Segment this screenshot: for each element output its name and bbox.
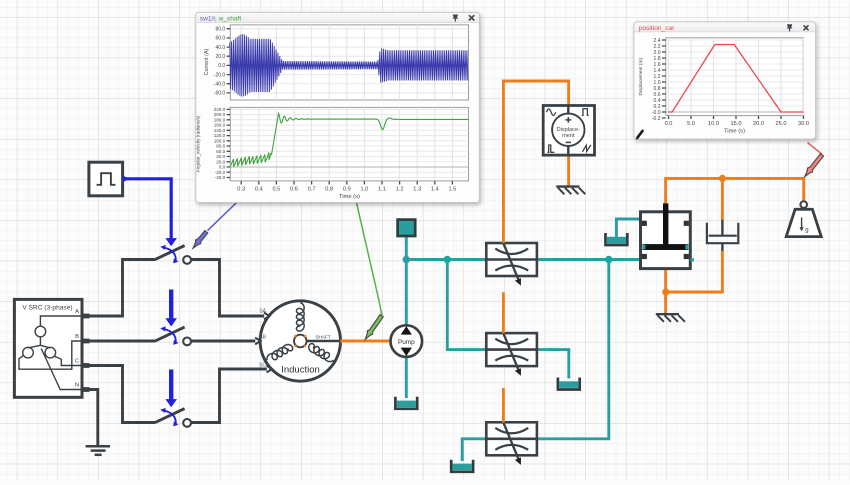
- displacement sensor: [543, 106, 594, 156]
- svg-text:Induction: Induction: [281, 365, 320, 376]
- svg-text:180.0: 180.0: [214, 117, 226, 122]
- svg-text:20.0: 20.0: [753, 121, 764, 127]
- svg-text:-0.2: -0.2: [652, 116, 661, 122]
- junction node (valve V2 branch): [444, 256, 451, 263]
- svg-text:SC: SC: [259, 362, 266, 368]
- svg-text:0.5: 0.5: [273, 187, 281, 193]
- svg-text:SHAFT: SHAFT: [315, 335, 330, 340]
- svg-text:Pump: Pump: [398, 339, 415, 346]
- mechanical line: cylinder body down: [664, 269, 667, 314]
- svg-text:-20.0: -20.0: [215, 170, 226, 175]
- svg-text:140.0: 140.0: [214, 128, 226, 133]
- svg-text:80.0: 80.0: [215, 27, 225, 33]
- rotation arrow at sw2: [160, 326, 178, 345]
- svg-text:C: C: [75, 359, 79, 365]
- svg-text:g: g: [805, 227, 808, 233]
- junction node (pump top): [403, 256, 410, 263]
- svg-text:10.0: 10.0: [708, 121, 719, 127]
- svg-text:1.4: 1.4: [431, 187, 439, 193]
- svg-text:-40.0: -40.0: [214, 82, 226, 88]
- mechanical line: junction to damper: [721, 178, 724, 220]
- mechanical line: cylinder rod to mass: [666, 178, 804, 204]
- svg-text:-40.0: -40.0: [215, 175, 226, 180]
- hydraulic cylinder: [641, 203, 695, 268]
- svg-text:0.8: 0.8: [325, 187, 333, 193]
- control arrow at sw2: [165, 290, 177, 327]
- svg-text:Displacement (m): Displacement (m): [638, 58, 644, 96]
- svg-text:sw1/i; w_shaft: sw1/i; w_shaft: [200, 15, 242, 22]
- valve V1 (variable orifice): [486, 243, 537, 286]
- tank T4 (cylinder drain): [606, 233, 628, 245]
- scope window position_car: [634, 22, 816, 140]
- svg-text:Displace-: Displace-: [557, 127, 580, 133]
- svg-text:V SRC (3-phase): V SRC (3-phase): [22, 305, 72, 312]
- svg-text:60.0: 60.0: [215, 36, 225, 42]
- mechanical line: damper to ground: [666, 251, 722, 292]
- hydraulic line: cylinder node down to valve V3: [537, 260, 609, 439]
- rotation arrow at sw3: [160, 408, 178, 427]
- rotation arrow at sw1: [160, 245, 178, 264]
- svg-text:25.0: 25.0: [776, 121, 787, 127]
- svg-text:0.3: 0.3: [237, 187, 245, 193]
- probe pen (red): [805, 154, 824, 177]
- svg-text:1.1: 1.1: [378, 187, 386, 193]
- mass (load weight): [786, 201, 821, 236]
- hydraulic line: node to valve V2: [447, 260, 486, 350]
- wire phase C: switch sw3 to motor SC: [191, 369, 267, 423]
- scope plot: Angular_velocity (radians/s): [196, 107, 469, 200]
- hydraulic line: tank T4 to cylinder top port: [616, 219, 640, 238]
- svg-text:40.0: 40.0: [215, 45, 225, 51]
- svg-text:80.0: 80.0: [216, 144, 225, 149]
- svg-text:1.3: 1.3: [413, 187, 421, 193]
- shaft: induction machine to pump: [340, 340, 390, 343]
- svg-text:30.0: 30.0: [798, 121, 809, 127]
- tank T3 (valve V3 drain): [451, 460, 473, 472]
- svg-text:-60.0: -60.0: [214, 91, 226, 97]
- damper: [707, 220, 738, 251]
- svg-text:Time (s): Time (s): [339, 194, 360, 200]
- probe pen (green): [365, 315, 383, 340]
- svg-text:40.0: 40.0: [216, 154, 225, 159]
- hydraulic line: pump to tank T1: [405, 357, 408, 398]
- probe line (blue, sw1 current): [208, 203, 237, 231]
- svg-text:N: N: [75, 383, 79, 389]
- svg-text:A: A: [75, 309, 79, 315]
- svg-text:Angular_velocity (radians/s): Angular_velocity (radians/s): [196, 115, 201, 172]
- mechanical ground (cylinder): [656, 314, 685, 322]
- switch sw1 (phase A): [155, 246, 191, 264]
- mechanical ground (sensor): [556, 187, 585, 195]
- control arrow at sw1: [165, 238, 177, 246]
- control arrow at sw3: [165, 370, 177, 408]
- svg-text:0.6: 0.6: [290, 187, 298, 193]
- tank T1 (below pump): [395, 397, 417, 409]
- wire phase C: V SRC C to switch sw3: [88, 366, 155, 423]
- svg-text:Current (A): Current (A): [204, 48, 210, 75]
- junction node (cylinder/damper ground): [662, 288, 669, 295]
- wire: pulse source to sw1 control: [123, 176, 171, 239]
- 3-phase voltage source V SRC: [14, 299, 89, 397]
- svg-text:Time (s): Time (s): [724, 128, 745, 134]
- wire phase B: switch sw2 to motor SB: [191, 340, 255, 343]
- probe pen (blue): [193, 231, 208, 249]
- junction node (damper): [719, 175, 726, 182]
- svg-text:ment: ment: [562, 133, 575, 139]
- svg-text:SA: SA: [259, 308, 266, 314]
- wire phase A: switch sw1 to motor SA: [191, 260, 264, 317]
- edit pencil icon: [637, 130, 643, 138]
- wire phase A: V SRC A to switch sw1: [88, 260, 155, 317]
- svg-text:0.7: 0.7: [308, 187, 316, 193]
- accumulator (teal square): [398, 220, 416, 236]
- svg-text:position_car: position_car: [639, 25, 675, 32]
- switch sw2 (phase B): [155, 327, 191, 345]
- hydraulic line: valve V1 to cylinder: [537, 258, 641, 261]
- svg-text:0.0: 0.0: [218, 63, 225, 69]
- svg-text:0.9: 0.9: [343, 187, 351, 193]
- valve V3 (variable orifice): [486, 422, 537, 465]
- tank T2 (valve V2 drain): [558, 378, 580, 390]
- control stub: valve V2: [502, 292, 505, 333]
- svg-text:0.4: 0.4: [255, 187, 263, 193]
- svg-text:1.2: 1.2: [396, 187, 404, 193]
- pump: [391, 325, 423, 357]
- hydraulic line: valve V3 to tank T3: [462, 439, 486, 461]
- svg-text:5.0: 5.0: [687, 121, 695, 127]
- wire phase B: V SRC B to switch sw2: [88, 340, 155, 343]
- svg-text:20.0: 20.0: [215, 54, 225, 60]
- svg-text:1.0: 1.0: [361, 187, 369, 193]
- junction node (cylinder branch): [605, 256, 612, 263]
- pulse source block: [89, 162, 123, 196]
- svg-text:B: B: [75, 334, 79, 340]
- sensor ground wire: [567, 155, 570, 186]
- hydraulic line: accumulator to pump: [405, 236, 408, 325]
- switch sw3 (phase C): [155, 409, 191, 427]
- svg-text:SB: SB: [259, 334, 266, 340]
- svg-text:0.0: 0.0: [665, 121, 673, 127]
- control stub: valve V3: [502, 388, 505, 423]
- scope plot: Current (A): [204, 25, 469, 100]
- valve V2 (variable orifice): [486, 333, 537, 376]
- svg-text:-20.0: -20.0: [214, 72, 226, 78]
- probe line (red, position_car): [808, 143, 823, 155]
- control line: displacement sensor to valve V1: [503, 81, 568, 243]
- probe line (green, w_shaft): [357, 203, 382, 316]
- scope window sw1/i; w_shaft: [196, 12, 480, 202]
- svg-text:1.5: 1.5: [449, 187, 457, 193]
- hydraulic line: pump node to valve V1: [406, 258, 486, 261]
- ground (electrical): [86, 446, 110, 455]
- induction machine: [255, 301, 340, 381]
- wire neutral: V SRC N to ground: [88, 390, 98, 447]
- svg-text:15.0: 15.0: [731, 121, 742, 127]
- hydraulic line: valve V2 to tank T2: [537, 350, 569, 379]
